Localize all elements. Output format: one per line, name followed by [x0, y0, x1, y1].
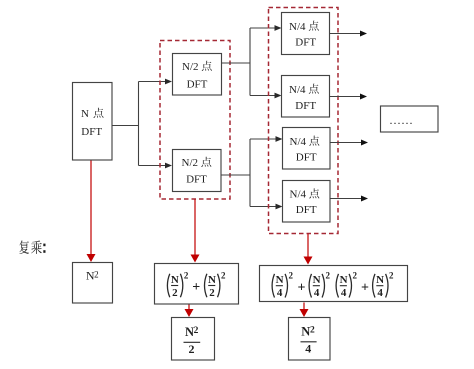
svg-text:DFT: DFT: [187, 79, 208, 91]
wire junction split upper pair: [249, 28, 251, 96]
red dashed group N/4 stage: [269, 8, 339, 234]
label fu-cheng (complex multiplications): [19, 240, 45, 254]
svg-text:2: 2: [194, 326, 199, 336]
box N/4-point DFT 1: [282, 13, 330, 55]
box ellipsis dots: [381, 106, 439, 132]
svg-text:2: 2: [172, 287, 178, 299]
svg-text:4: 4: [277, 287, 283, 299]
wire junction split lower pair: [249, 139, 251, 207]
wire arrow to N/4 box 1: [250, 25, 282, 31]
red arrow formula to N^2/4: [300, 303, 309, 318]
svg-text:N/2: N/2: [182, 157, 199, 169]
svg-text:DFT: DFT: [296, 204, 317, 216]
svg-text:2: 2: [289, 271, 294, 281]
svg-text:+: +: [361, 280, 369, 295]
output arrow from N/4 box 3: [330, 140, 369, 146]
svg-text:2: 2: [353, 271, 358, 281]
output arrow from N/4 box 4: [330, 196, 369, 202]
svg-text:N/4: N/4: [290, 189, 307, 201]
box N/2-point DFT lower: [173, 150, 222, 192]
term (N/2)^2 second: [205, 274, 207, 298]
svg-text:2: 2: [326, 271, 331, 281]
red arrow formula to N^2/2: [185, 305, 194, 318]
wire from lower N/2 output: [221, 174, 250, 176]
svg-text:DFT: DFT: [81, 126, 102, 138]
box formula (N/4)^2+(N/4)^2 (N/4)^2+(N/4)^2: [260, 266, 408, 302]
svg-text:N: N: [276, 274, 284, 286]
svg-text:4: 4: [341, 287, 347, 299]
svg-text:N/4: N/4: [290, 136, 307, 148]
svg-text:2: 2: [189, 342, 195, 356]
svg-text:......: ......: [390, 113, 414, 127]
svg-text:2: 2: [209, 287, 215, 299]
wire arrow to lower N/2 box: [139, 163, 173, 169]
red arrow from N-DFT down to N^2: [87, 161, 96, 263]
red arrow from N/2 group down to formula: [191, 200, 200, 263]
svg-text:2: 2: [94, 270, 99, 280]
svg-text:DFT: DFT: [296, 152, 317, 164]
svg-text:2: 2: [184, 271, 189, 281]
svg-text:DFT: DFT: [295, 100, 316, 112]
svg-text:N: N: [171, 274, 179, 286]
svg-text:N: N: [376, 274, 384, 286]
box N^2/4: [289, 318, 331, 361]
term (N/4)^2 third: [336, 274, 338, 298]
wire from N-DFT output: [112, 125, 139, 127]
box formula (N/2)^2 + (N/2)^2: [155, 264, 239, 305]
svg-text:2: 2: [221, 271, 226, 281]
term (N/4)^2 fourth: [373, 274, 375, 298]
svg-text:2: 2: [389, 271, 394, 281]
box N/4-point DFT 3: [283, 128, 331, 170]
svg-text:+: +: [298, 280, 306, 295]
svg-text:2: 2: [310, 326, 315, 336]
wire arrow to N/4 box 2: [250, 93, 282, 99]
svg-text:DFT: DFT: [186, 174, 207, 186]
box N/4-point DFT 2: [282, 76, 330, 118]
svg-text:4: 4: [377, 287, 383, 299]
svg-text:N: N: [208, 274, 216, 286]
red dashed group N/2 stage: [160, 41, 230, 200]
output arrow from N/4 box 1: [330, 31, 368, 37]
box N-point DFT: [73, 83, 113, 161]
box N/2-point DFT upper: [173, 54, 222, 96]
svg-text:4: 4: [314, 287, 320, 299]
wire arrow to N/4 box 3: [250, 136, 283, 142]
svg-text:N: N: [313, 274, 321, 286]
svg-text:+: +: [192, 280, 200, 295]
svg-text:N/4: N/4: [289, 21, 306, 33]
term (N/2)^2 first: [167, 274, 169, 298]
wire arrow to N/4 box 4: [250, 204, 283, 210]
svg-text:N/2: N/2: [182, 61, 199, 73]
wire junction vertical split: [138, 82, 140, 166]
svg-text:N: N: [81, 108, 89, 120]
box N squared: [73, 263, 113, 304]
output arrow from N/4 box 2: [330, 94, 368, 100]
svg-text:N: N: [340, 274, 348, 286]
svg-text:N/4: N/4: [289, 84, 306, 96]
svg-text:DFT: DFT: [295, 36, 316, 48]
term (N/4)^2 second: [309, 274, 311, 298]
red arrow from N/4 group down to formula: [304, 234, 313, 265]
wire arrow to upper N/2 box: [139, 79, 173, 85]
box N/4-point DFT 4: [283, 181, 331, 223]
box N^2/2: [172, 318, 215, 361]
wire from upper N/2 output: [222, 62, 251, 64]
svg-text:N: N: [301, 325, 310, 339]
term (N/4)^2 first: [272, 274, 274, 298]
svg-text:4: 4: [305, 342, 311, 356]
